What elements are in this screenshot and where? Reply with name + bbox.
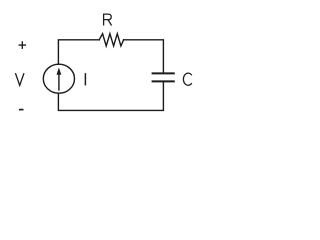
capacitor C bottom plate xyxy=(152,80,175,82)
label I xyxy=(84,73,86,85)
label R xyxy=(103,14,111,26)
label C xyxy=(183,73,191,85)
wire top-left segment xyxy=(58,40,99,64)
label minus xyxy=(19,109,24,111)
current source arrow shaft xyxy=(58,74,60,91)
current source arrowhead xyxy=(57,68,62,75)
label plus xyxy=(19,41,27,49)
capacitor C top plate xyxy=(152,72,175,74)
wire bottom-right segment xyxy=(58,81,163,110)
label V xyxy=(15,73,24,85)
current source I circle xyxy=(43,64,74,93)
resistor R xyxy=(99,34,123,46)
wire top-right segment xyxy=(124,40,164,73)
